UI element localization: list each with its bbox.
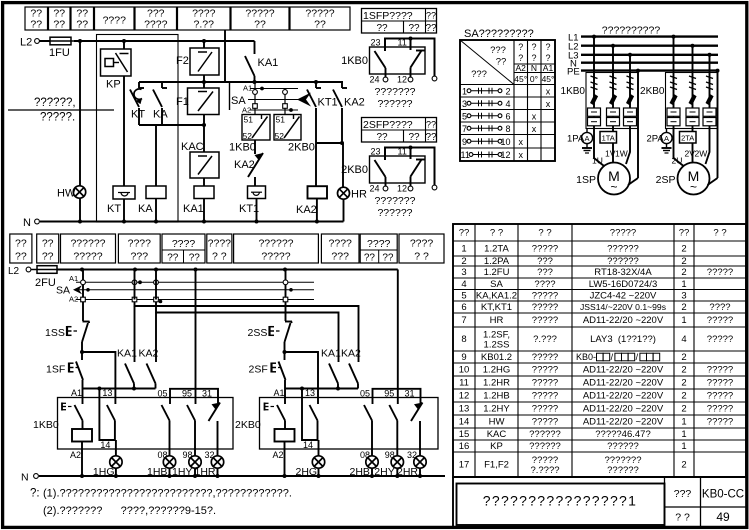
2KB0 thermal element 1 (667, 108, 680, 126)
svg-text:1SF: 1SF (46, 364, 65, 376)
svg-text:?????: ????? (707, 334, 733, 345)
svg-text:6: 6 (461, 302, 466, 313)
svg-text:?????: ????? (707, 267, 733, 278)
svg-text:16: 16 (459, 441, 470, 452)
svg-text:?????: ????? (261, 251, 290, 263)
svg-text:L2: L2 (20, 37, 32, 49)
svg-text:KT,KT1: KT,KT1 (481, 302, 512, 313)
node L2 (bottom supply) (8, 266, 31, 277)
wire bus to F2 (203, 41, 205, 48)
SA row 7-8 (462, 124, 537, 134)
wire KAC to KA1 coil (203, 178, 205, 186)
wire lamp 1HG feed (115, 440, 117, 456)
wire seal branch 13 (1SS side) (82, 352, 115, 404)
svg-text:2SP: 2SP (656, 174, 676, 186)
svg-text:13: 13 (102, 388, 112, 398)
aux contact block 1KB0 51-52 (229, 115, 270, 154)
relay KP (phase-failure) box (101, 49, 132, 91)
svg-text:12: 12 (459, 391, 470, 402)
svg-text:AD11-22/20 ~220V: AD11-22/20 ~220V (583, 365, 664, 376)
svg-text:??: ?? (15, 251, 27, 263)
wire contact feeder bus (1KB0) (170, 389, 218, 398)
svg-text:????: ???? (208, 238, 232, 250)
svg-text:HR: HR (490, 315, 504, 326)
svg-text:KA: KA (138, 203, 153, 215)
svg-text:????: ???? (709, 302, 730, 313)
wire KP to KT coil (123, 76, 125, 186)
svg-text:??: ?? (426, 120, 436, 130)
svg-text:2: 2 (681, 267, 686, 278)
svg-text:? ?: ? ? (414, 251, 429, 263)
1SFP label table (362, 9, 437, 35)
svg-text:? ?: ? ? (713, 228, 726, 239)
svg-text:1KB0: 1KB0 (561, 86, 586, 97)
1KB0 phase drop 1 (590, 35, 598, 108)
lamp 1HB (147, 456, 176, 478)
svg-text:?????: ????? (707, 315, 733, 326)
aux contact block 2KB0 51-52 (274, 115, 315, 154)
contact KT1 NO (307, 82, 338, 143)
2SFP label table (362, 118, 437, 144)
svg-text:45°: 45° (514, 74, 527, 84)
svg-text:??????: ?????? (529, 429, 561, 440)
parts row 9 KB01.2 (461, 352, 686, 363)
svg-text:???: ??? (331, 251, 349, 263)
svg-text:KP: KP (106, 79, 121, 91)
aux contact 05-08 2KB0 (360, 398, 373, 461)
svg-text:??: ?? (30, 19, 42, 31)
svg-text:x: x (546, 99, 551, 109)
aux contact 95-98 2KB0 (385, 398, 398, 461)
bottom zone-label strip (10, 234, 444, 264)
wire contact feeder bus (2KB0) (373, 389, 421, 398)
svg-text:05: 05 (360, 389, 370, 399)
wire join to KA coil (155, 125, 157, 186)
svg-text:23: 23 (371, 38, 381, 48)
svg-text:??????????: ?????????? (602, 25, 661, 37)
junction dots on y82 (253, 80, 319, 84)
svg-text:??: ?? (314, 19, 326, 31)
svg-text:1: 1 (681, 417, 686, 428)
svg-text:1FU: 1FU (49, 47, 70, 59)
svg-text:A2: A2 (515, 63, 526, 73)
node L2 (top control supply) (20, 37, 39, 49)
svg-text:?????: ????? (707, 365, 733, 376)
svg-text:1SP: 1SP (576, 174, 596, 186)
wire bus to HW and HW to N (79, 41, 81, 186)
svg-text:AD11-22/20 ~220V: AD11-22/20 ~220V (583, 404, 664, 415)
wire F1 to KAC (203, 115, 205, 153)
parts row 6 KT,KT1 (461, 302, 730, 313)
wire drop to 2SS (283, 270, 288, 322)
svg-text:HW: HW (57, 188, 76, 200)
lamp 1HR (195, 456, 224, 478)
svg-text:9: 9 (461, 352, 466, 363)
1SFP wire loop 23-11 (385, 37, 435, 77)
svg-text:4: 4 (461, 279, 466, 290)
svg-text:1: 1 (462, 86, 467, 96)
motor 2SP (656, 163, 718, 195)
junction dots on N line (78, 220, 319, 224)
1KB0 thermal element 3 (624, 108, 637, 126)
svg-text:1TA: 1TA (602, 134, 615, 143)
wire main bottom bus (57, 269, 398, 271)
svg-text:~: ~ (610, 180, 617, 194)
svg-text:??: ?? (189, 253, 201, 264)
svg-text:??: ?? (425, 23, 437, 34)
wire L2 bus to fuse (40, 40, 51, 42)
svg-text:?: ? (545, 53, 550, 63)
wire SA frame left drop (229, 82, 231, 110)
parts row 7 HR (461, 315, 733, 326)
selector line A1 (top) (243, 84, 298, 93)
wire parallel join y388 (1KB0) (82, 387, 156, 391)
SA row 1-2 (462, 86, 551, 96)
lamp 2HG green (296, 456, 325, 478)
svg-text:2: 2 (681, 244, 686, 255)
wire KT coil to N (123, 199, 125, 222)
SA row 3-4 (462, 99, 551, 109)
aux contact 05-08 1KB0 (158, 398, 171, 461)
svg-text:6: 6 (506, 111, 511, 121)
SA row 5-6 (462, 111, 537, 121)
parts row 15 KAC (459, 429, 687, 440)
svg-text:????: ???? (534, 279, 555, 290)
junction dot below 1SS (80, 350, 84, 354)
svg-text:2: 2 (681, 460, 686, 471)
svg-text:1.2FU: 1.2FU (484, 267, 510, 278)
2KB0 phase drop 1 (670, 35, 678, 108)
svg-text:A2: A2 (70, 450, 81, 460)
svg-text:????: ???? (172, 238, 196, 250)
selector line A2 (bottom) (69, 295, 314, 304)
svg-text:KAC: KAC (181, 141, 204, 153)
title block frame (453, 477, 746, 526)
svg-text:45°: 45° (542, 74, 555, 84)
coil KA1 (183, 186, 214, 215)
1SFP contact blades (375, 51, 425, 79)
svg-text:23: 23 (371, 147, 381, 157)
svg-text:??: ?? (53, 19, 65, 31)
svg-text:2W: 2W (695, 149, 708, 159)
svg-text:?????: ????? (707, 404, 733, 415)
contactor group 1KB0 frame (586, 73, 638, 129)
wire feed line y82 (F2 output to KT/KA contacts) (139, 81, 230, 83)
SA row 9-10 (462, 137, 523, 147)
junction dot below 2SS (283, 350, 287, 354)
contact KA1 parallel (1SF side) (117, 306, 137, 389)
breaker F2 (176, 48, 219, 75)
svg-text:1.2PA: 1.2PA (484, 256, 510, 267)
svg-text:1.2TA: 1.2TA (484, 244, 509, 255)
coil KA (138, 186, 166, 215)
2SFP terminals 24/12 (370, 184, 437, 194)
wire SA section bus y82 (230, 81, 344, 83)
svg-text:? ?: ? ? (212, 251, 227, 263)
current transformer 2TA (680, 132, 697, 144)
parts row 1 1.2TA (461, 244, 686, 255)
svg-text:51: 51 (244, 115, 254, 125)
svg-text:?: ? (545, 42, 550, 52)
power bus L1 (568, 33, 718, 44)
emergency stop 2SS (248, 322, 293, 353)
svg-text:HR: HR (351, 189, 367, 201)
svg-text:2: 2 (681, 302, 686, 313)
coil KT with delay mark (107, 186, 135, 215)
svg-text:2KB0: 2KB0 (288, 142, 315, 154)
ammeter 1PA (567, 129, 593, 145)
svg-text:1.2HR: 1.2HR (483, 378, 510, 389)
leader note text upper left (8, 97, 114, 124)
svg-text:1KB0: 1KB0 (341, 55, 368, 67)
2KB0 thermal element 3 (703, 108, 716, 126)
svg-text:KA: KA (153, 109, 168, 121)
terminals on SA verticals (top) (253, 82, 288, 115)
2KB0 PE drop wire (716, 69, 720, 178)
svg-text:??: ?? (426, 11, 436, 21)
svg-text:2: 2 (506, 86, 511, 96)
svg-text:?????: ????? (532, 302, 558, 313)
junction dots on N under 2KB0 (317, 474, 423, 478)
motor 1SP (576, 163, 638, 195)
svg-text:??: ?? (425, 132, 437, 143)
selector line A1 (bottom) (69, 274, 314, 284)
svg-text:2: 2 (461, 256, 466, 267)
wire KA1 coil to N (203, 199, 205, 222)
power bus N (570, 59, 718, 70)
svg-text:14: 14 (459, 417, 470, 428)
wire KT1/KA2 bottoms join y143 (316, 142, 342, 144)
contactor box 1KB0 (33, 398, 233, 450)
svg-text:?????: ????? (532, 417, 558, 428)
svg-text:??: ?? (459, 228, 470, 239)
parts row 2 1.2PA (461, 256, 686, 267)
svg-text:1: 1 (681, 279, 686, 290)
svg-text:??????: ?????? (70, 238, 105, 250)
1KB0 thermal element 2 (607, 108, 620, 126)
seal contact 13-14 1KB0 (99, 389, 115, 451)
lamp HR red (338, 187, 367, 200)
start button 1SF (46, 352, 83, 389)
svg-text:? ?: ? ? (675, 512, 690, 524)
contact KA2 NO (top right) (333, 82, 365, 143)
contact KT (delay) NO (130, 82, 144, 113)
svg-text:??: ?? (408, 132, 420, 143)
svg-text:?????: ????? (707, 391, 733, 402)
svg-text:?.???: ?.??? (533, 334, 557, 345)
svg-text:2: 2 (681, 352, 686, 363)
svg-text:??: ?? (376, 23, 388, 34)
junction dots on top bus (78, 39, 206, 43)
fuse 1FU (47, 37, 74, 59)
svg-text:10: 10 (459, 365, 470, 376)
svg-text:??: ?? (376, 132, 388, 143)
1SFP terminals 24/12 (370, 75, 437, 85)
2SFP wire loop 23-11 (385, 146, 435, 186)
2KB0 motor feed wires 2U/2V/2W (672, 126, 710, 166)
aux contact 31-32 (arrow) 2KB0 (407, 398, 423, 461)
svg-text:1.2HB: 1.2HB (483, 391, 509, 402)
relay KAC box (181, 141, 219, 178)
wire parallel join y388 (2KB0) (285, 387, 359, 391)
svg-text:? ?: ? ? (490, 228, 503, 239)
svg-text:(1).?????????????????????????,: (1).?????????????????????????,??????????… (43, 488, 292, 500)
svg-text:? ?: ? ? (538, 228, 551, 239)
breaker F1 (176, 88, 219, 115)
contact KA NO (153, 82, 167, 113)
svg-text:95: 95 (384, 389, 394, 399)
svg-text:????????????????1: ????????????????1 (483, 493, 637, 509)
svg-text:N: N (23, 217, 31, 229)
svg-text:5: 5 (462, 111, 467, 121)
svg-text:2KB0: 2KB0 (341, 164, 368, 176)
svg-text:13: 13 (459, 404, 470, 415)
svg-text:95: 95 (182, 389, 192, 399)
svg-text:??: ?? (15, 238, 27, 250)
svg-text:????: ???? (144, 19, 168, 31)
svg-text:??: ?? (382, 253, 394, 264)
wire feeder to 95 contact (half1) (195, 270, 197, 389)
svg-text:??????: ?????? (607, 441, 639, 452)
svg-text:9: 9 (462, 137, 467, 147)
svg-text:??: ?? (42, 251, 54, 263)
svg-text:KA1: KA1 (258, 57, 279, 69)
svg-text:05: 05 (158, 389, 168, 399)
svg-text:1: 1 (461, 244, 466, 255)
parts row header (459, 228, 727, 239)
junction dots on N under 1KB0 (114, 474, 220, 478)
ground symbol under 1PA (582, 144, 592, 153)
lamp 2HY (374, 456, 403, 478)
selector line A2 (top) (242, 106, 298, 115)
parts table grid (453, 224, 746, 477)
svg-text:1: 1 (681, 429, 686, 440)
wire feeder to 95 contact (half2) from bus end (397, 270, 399, 389)
svg-text:??: ?? (496, 57, 507, 68)
svg-text:?.??: ?.?? (194, 19, 215, 31)
svg-text:?????: ????? (532, 365, 558, 376)
wire seal branch 13 (2SS side) (285, 352, 319, 404)
svg-text:SA: SA (56, 285, 70, 297)
wire drop to 1SS (81, 270, 86, 322)
lamp 2HR (397, 456, 426, 478)
selector SA line (bottom) with arrow (56, 285, 314, 297)
svg-text:2KB0: 2KB0 (235, 419, 261, 431)
parts row 3 1.2FU (461, 267, 733, 278)
svg-text:?: ? (518, 42, 523, 52)
svg-text:???: ??? (490, 45, 506, 56)
svg-text:????: ???? (367, 238, 391, 250)
svg-text:KA2: KA2 (344, 97, 365, 109)
svg-text:15: 15 (459, 429, 470, 440)
svg-text:KAC: KAC (487, 429, 507, 440)
1SFP caption text (375, 86, 416, 110)
parts row 17 F1,F2 (459, 455, 687, 476)
1SFP contact box pins 23/11 (370, 38, 426, 75)
aux contact 95-98 1KB0 (183, 398, 196, 461)
2SFP contact blades (375, 160, 425, 188)
main contact A1 and coil 2KB0 (275, 389, 295, 449)
svg-text:x: x (532, 111, 537, 121)
svg-text:F1,F2: F1,F2 (484, 460, 509, 471)
svg-text:1.2HY: 1.2HY (483, 404, 510, 415)
junction dot y143 (340, 141, 344, 145)
svg-text:1: 1 (681, 315, 686, 326)
svg-text:5: 5 (461, 290, 466, 301)
svg-text:12: 12 (397, 75, 407, 85)
svg-text:JSS14/~220V 0.1~99s: JSS14/~220V 0.1~99s (580, 302, 666, 312)
coil KA2 (296, 186, 327, 216)
junction dot KTKA-F1 join (202, 123, 206, 127)
wire bus to KP (123, 41, 125, 49)
frame around KP/KT/KA column (97, 35, 179, 223)
svg-text:N: N (21, 472, 29, 484)
svg-text:LW5-16D0724/3: LW5-16D0724/3 (589, 279, 657, 290)
svg-text:N: N (531, 63, 537, 73)
svg-text:?????.: ?????. (40, 112, 75, 124)
terminals on KA1 drop (half1) (132, 270, 137, 302)
svg-text:AD11-22/20 ~220V: AD11-22/20 ~220V (583, 391, 664, 402)
fuse 2FU (31, 266, 60, 289)
svg-text:x: x (546, 86, 551, 96)
svg-text:????: ???? (410, 238, 434, 250)
svg-text:???????: ??????? (375, 195, 416, 207)
svg-text:52: 52 (275, 131, 285, 141)
svg-text:???: ??? (537, 267, 553, 278)
svg-text:AD11-22/20 ~220V: AD11-22/20 ~220V (583, 378, 664, 389)
svg-text:KT: KT (107, 203, 121, 215)
svg-text:?????: ????? (532, 378, 558, 389)
1KB0 phase drop 2 (609, 44, 617, 108)
svg-text:?????: ????? (532, 315, 558, 326)
parts row 16 KP (459, 441, 687, 452)
node N (bottom) (21, 472, 38, 484)
wire KT1 coil to N (256, 199, 258, 222)
svg-text:4: 4 (681, 334, 686, 345)
svg-text:1.2SS: 1.2SS (484, 340, 510, 351)
svg-text:KB0-CC: KB0-CC (702, 489, 744, 501)
svg-text:14: 14 (100, 440, 110, 450)
power bus L2 (568, 42, 718, 53)
svg-text:??????: ?????? (258, 238, 293, 250)
svg-text:3: 3 (461, 267, 466, 278)
svg-text:??: ?? (364, 253, 376, 264)
svg-text:A: A (664, 134, 669, 143)
svg-text:2U: 2U (672, 156, 683, 166)
svg-text:0°: 0° (530, 74, 538, 84)
svg-text:49: 49 (716, 510, 730, 524)
svg-text:KP: KP (490, 441, 503, 452)
svg-text:?????: ????? (707, 378, 733, 389)
svg-text:31: 31 (202, 389, 212, 399)
contactor group 2KB0 frame (666, 73, 718, 129)
svg-text:1KB0: 1KB0 (33, 419, 59, 431)
power bus PE (567, 67, 718, 78)
contact KA1 parallel (2SF side) (321, 313, 341, 389)
svg-text:???????: ??????? (375, 86, 416, 98)
svg-text:51: 51 (276, 115, 286, 125)
svg-text:2: 2 (681, 378, 686, 389)
svg-text:?????: ????? (707, 417, 733, 428)
ammeter 2PA (647, 129, 673, 145)
svg-text:A2: A2 (273, 450, 284, 460)
wire N line (bottom) (39, 475, 445, 477)
svg-text:24: 24 (370, 184, 380, 194)
svg-text:??: ?? (408, 23, 420, 34)
svg-text:F2: F2 (176, 55, 189, 67)
svg-text:A1: A1 (274, 388, 285, 398)
svg-text:24: 24 (370, 75, 380, 85)
